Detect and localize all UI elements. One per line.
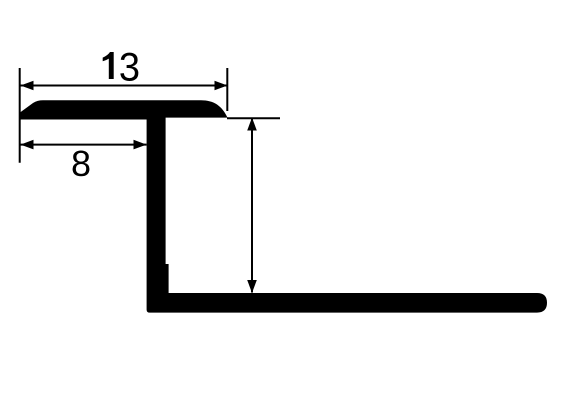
value label 13: digit 1 bbox=[103, 52, 114, 79]
dimension vertical (profile height, unlabeled) bbox=[247, 118, 257, 294]
dimension 8 (flange left overhang) bbox=[21, 140, 147, 184]
arrowhead left of dimension 13 bbox=[21, 81, 34, 91]
arrowhead left of dimension 8 bbox=[21, 140, 34, 150]
arrowhead right of dimension 8 bbox=[134, 140, 147, 150]
svg-text:8: 8 bbox=[71, 143, 91, 184]
arrowhead right of dimension 13 bbox=[215, 81, 228, 91]
extension line right (x=227) bbox=[226, 68, 228, 111]
dimension line 13 bbox=[21, 85, 228, 87]
dimension line vertical bbox=[251, 118, 253, 293]
profile cross-section (J-shaped trim profile body) bbox=[20, 100, 547, 312]
extension line horizontal (under flange right tip) bbox=[227, 117, 280, 119]
dimension 13 (top width) bbox=[21, 46, 228, 91]
dimension line 8 bbox=[21, 144, 147, 146]
extension line left (x=20) bbox=[19, 68, 21, 163]
svg-text:3: 3 bbox=[119, 46, 140, 90]
arrowhead top of vertical dimension bbox=[247, 118, 257, 131]
arrowhead bottom of vertical dimension bbox=[247, 280, 257, 293]
